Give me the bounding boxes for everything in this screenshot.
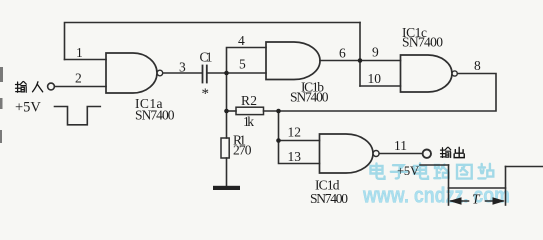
svg-text:SN7400: SN7400 [310,191,348,206]
svg-text:www. cndzz. com: www. cndzz. com [362,183,510,208]
wire pin12 [279,140,320,142]
svg-text:11: 11 [394,138,407,153]
bubble IC1a output [157,70,163,76]
junction R2 right [276,109,281,114]
wire node B vertical [359,23,361,87]
text 输 of 输出 [440,147,450,157]
svg-text:SN7400: SN7400 [290,90,329,105]
arrowhead right [493,197,506,204]
wire pin11 [379,153,423,155]
svg-text:270: 270 [233,143,252,158]
ground symbol [213,186,240,190]
nand gate IC1c [401,55,452,92]
wire pin10 [360,85,401,87]
bubble IC1d output [373,151,379,157]
arrowhead left [449,197,462,204]
scan smudge left 1 [0,67,3,82]
wire node A down to R2 [226,73,228,111]
capacitor C1 plates [202,66,204,83]
output waveform falling edge [448,165,450,205]
bubble IC1c output [452,71,457,76]
svg-text:1: 1 [76,45,83,60]
junction R2 left [224,109,229,114]
dimension arrow line right [486,200,504,202]
watermark char 子 [391,165,407,178]
resistor R2 [236,107,264,114]
output waveform rising edge [505,167,507,206]
wire R2 right lead [264,110,279,112]
text 出 of 输出 [454,147,464,157]
input terminal [48,83,55,90]
wire pin1 IC1a [65,59,107,61]
wire pin4 over-route [227,48,267,74]
svg-text:C1: C1 [200,50,213,65]
watermark char 电 [371,164,385,179]
wire node C vertical to pins 12 13 [279,111,320,164]
output waveform high segment left [420,164,449,166]
wire R1 vertical top lead [226,111,228,138]
wire pin6 [320,60,360,62]
watermark char 路 [434,165,448,179]
svg-text:6: 6 [339,46,346,61]
svg-text:3: 3 [179,60,186,75]
svg-text:5: 5 [239,57,246,72]
wire R2 left lead [227,110,237,112]
text 入 of 输入 [33,82,43,92]
text 输 of 输入 [16,82,27,93]
nand gate IC1a [106,53,157,93]
output waveform high segment right [506,166,543,168]
scan smudge left 2 [0,130,2,143]
svg-text:4: 4 [238,33,245,48]
svg-text:8: 8 [474,58,481,73]
svg-text:13: 13 [288,149,302,164]
watermark char 电 2 [414,164,428,179]
wire C1 to node A [208,72,227,74]
wire pin3 [163,72,202,74]
wire feedback top [65,23,361,60]
svg-text:2: 2 [75,71,82,86]
svg-text:R2: R2 [241,93,257,108]
input pulse waveform [55,107,101,125]
svg-text:SN7400: SN7400 [402,35,443,50]
svg-text:SN7400: SN7400 [135,108,175,123]
resistor R1 [221,138,229,158]
wire pin2 IC1a [55,86,106,88]
svg-text:12: 12 [288,125,302,140]
wire pin9 [360,60,401,62]
svg-text:+5V: +5V [15,100,41,116]
wire pin5 [227,72,267,74]
svg-text:1k: 1k [243,114,254,129]
junction node A [224,71,229,76]
svg-text:+5V: +5V [397,164,419,178]
watermark char 图 [457,165,472,179]
dimension arrow line left [451,200,469,202]
junction pin12 tap [276,138,281,143]
nand gate IC1b [266,42,320,80]
watermark char 站 [478,164,493,179]
wire R1 bottom lead [226,158,228,186]
svg-text:10: 10 [368,71,382,86]
output terminal [423,150,431,158]
svg-text:*: * [202,86,210,102]
output waveform low segment [449,187,506,189]
nand gate IC1d [320,134,373,173]
svg-text:9: 9 [372,45,379,60]
junction node B [358,58,363,63]
wire pin8 loop [279,74,497,112]
